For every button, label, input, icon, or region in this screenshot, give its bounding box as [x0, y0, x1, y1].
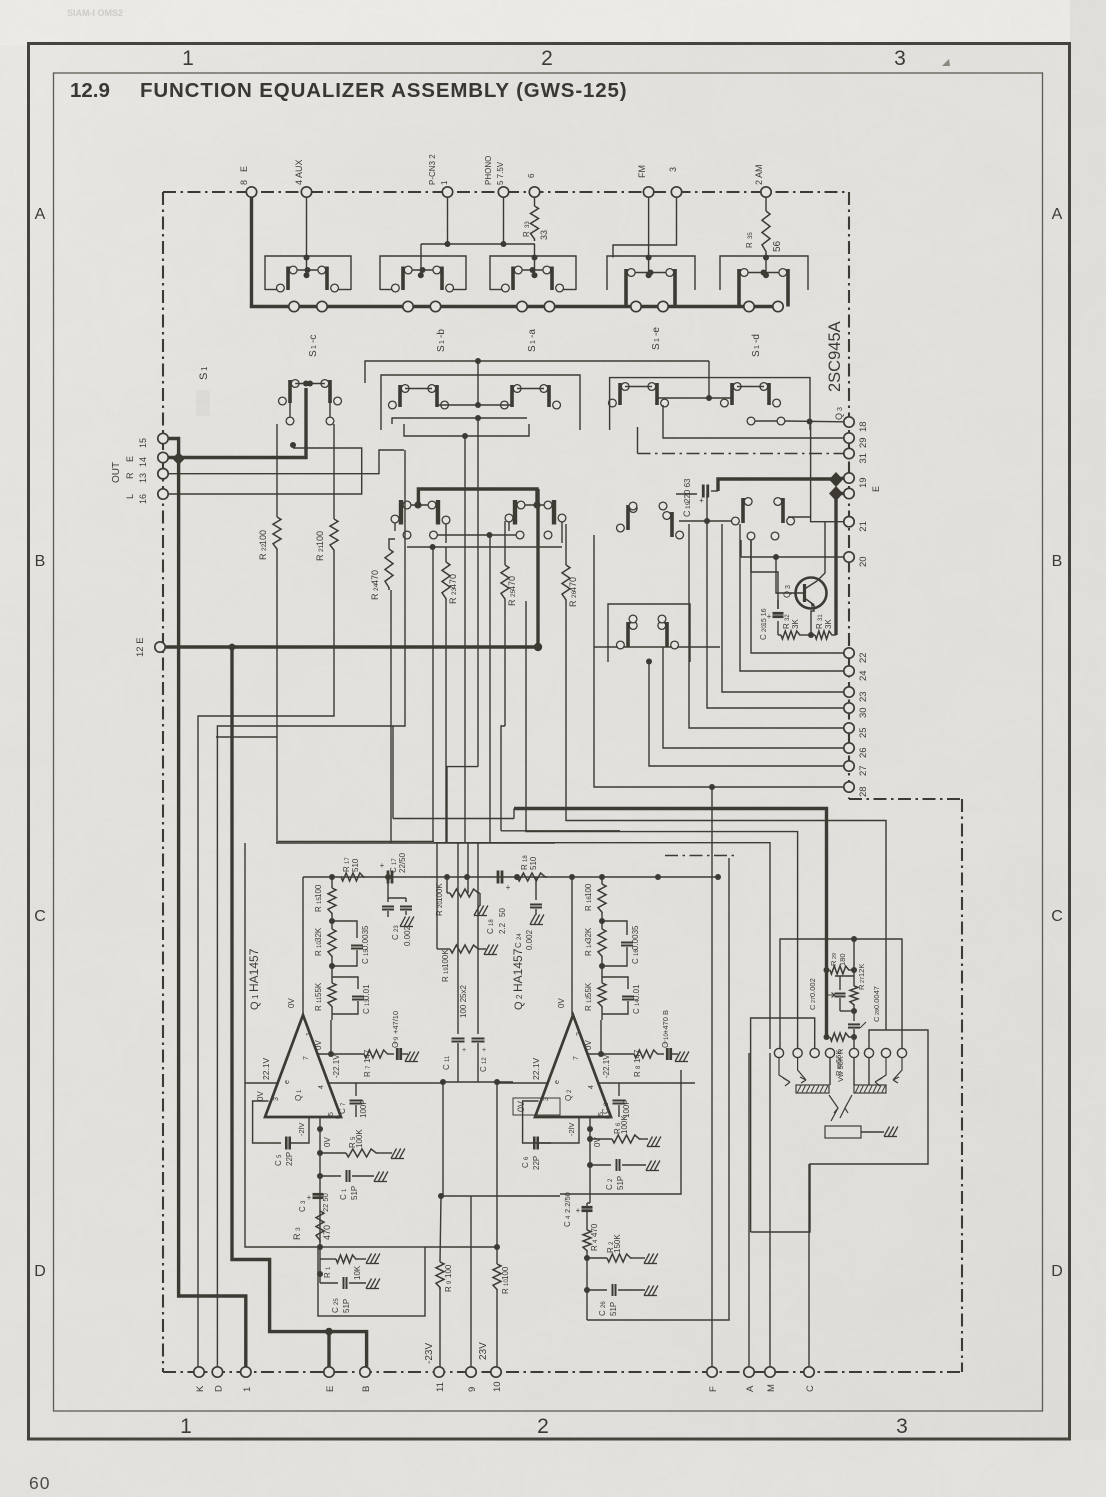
switch S1-e unit 3 — [730, 383, 734, 405]
wire S1-g circles top — [629, 502, 637, 510]
wire U2 pin3 rail — [497, 1082, 548, 1084]
wire band vertical d — [445, 601, 447, 843]
fader wiper arrows — [779, 1058, 790, 1086]
fader wiper link — [829, 1095, 852, 1121]
capacitor C17 — [387, 871, 390, 884]
wire S1-h circles — [629, 615, 637, 623]
resistor R18 510 — [517, 873, 547, 881]
resistor R20 100K — [446, 877, 448, 893]
label 0V box U2 — [513, 1098, 560, 1115]
wire to pin 20 — [741, 556, 844, 558]
wire S1-g link — [679, 520, 738, 522]
resistor R8 147 — [588, 1053, 635, 1055]
switch S1 in-c unit left — [511, 267, 515, 291]
chassis boundary right edge lower — [961, 799, 963, 1372]
wire C19 drop — [706, 494, 708, 521]
bus thick fader — [514, 809, 827, 971]
ground C9 — [405, 1052, 411, 1062]
wire S1-b contacts — [405, 388, 432, 390]
connector pin 27 — [844, 761, 854, 771]
wire thick down rail 2 — [232, 647, 367, 1367]
connector pin 31 — [844, 448, 854, 458]
chassis boundary bottom edge — [163, 1371, 962, 1373]
resistor R3 470 — [316, 1211, 324, 1242]
wire S1 in-e contacts — [748, 272, 779, 274]
ground C2 — [646, 1161, 652, 1171]
capacitor C10 — [659, 1053, 664, 1055]
wire S1-e feed — [708, 361, 710, 398]
wire Q1 box — [245, 843, 318, 1247]
wire band vertical c — [432, 547, 434, 841]
inner border frame — [54, 73, 1043, 1411]
switch section S1 in-d box — [607, 256, 695, 290]
capacitor C8 — [618, 1083, 620, 1096]
connector pin P-CN3 2 — [442, 187, 452, 197]
printing artifact arrow — [942, 59, 950, 66]
capacitor C20 — [751, 592, 762, 594]
node S1-f feed right — [533, 501, 540, 508]
wire terminal drops — [829, 1058, 831, 1085]
wire OUT thick bus — [168, 439, 179, 459]
connector pin 18 — [844, 417, 854, 427]
wire S1-f hang circles — [403, 531, 411, 539]
wire S1 in-d contacts — [635, 272, 666, 274]
wire fader top box — [780, 939, 902, 1049]
ground R2 — [644, 1254, 650, 1264]
switch S1-g unit 3 — [741, 498, 745, 523]
connector pin A bottom — [744, 1367, 754, 1377]
switch S1-h unit left — [626, 622, 630, 647]
connector pin F bottom — [707, 1367, 717, 1377]
wire thick to E pin — [327, 1332, 330, 1367]
wire to pin 28 — [594, 647, 844, 787]
connector pin 3 — [671, 187, 681, 197]
capacitor C12 — [472, 1038, 485, 1040]
wire band vertical f — [477, 418, 479, 767]
wire band vertical h — [504, 601, 506, 726]
node R3 bottom — [317, 1244, 323, 1250]
switch S1 in-d unit left — [624, 269, 628, 307]
fader body rect — [825, 1126, 861, 1138]
ground C24 — [530, 915, 536, 925]
connector pin 2 AM — [761, 187, 771, 197]
switch section S1 in-b box — [380, 256, 466, 290]
wire pin3 drop — [613, 192, 677, 258]
switch S1-b unit 3 — [510, 385, 514, 407]
resistor R11 55K — [328, 983, 336, 1008]
resistor R21 — [333, 424, 335, 519]
wire S1-f bottom link — [407, 546, 562, 548]
resistor R15 — [331, 877, 333, 888]
wire S1-f thick top bus — [418, 489, 537, 505]
wire S1-d bottom circles — [747, 417, 755, 425]
wire S1 in-a contacts — [297, 269, 318, 271]
capacitor C24 — [535, 877, 537, 900]
wire S1-e cross — [657, 397, 732, 399]
wire S1-b cross rail — [437, 404, 512, 406]
connector pin 25 — [844, 723, 854, 733]
connector pin 16 — [158, 489, 168, 499]
wire vertical mid b — [457, 843, 459, 1034]
wire U2 pin3 loop — [523, 1101, 551, 1143]
ground C10 — [675, 1052, 681, 1062]
node R4 bottom — [584, 1255, 590, 1261]
wire to pin 18 — [785, 420, 844, 423]
capacitor C27 — [826, 969, 828, 971]
wire S1-f lower rail — [437, 534, 516, 536]
resistor R35 — [765, 192, 767, 211]
wire F rail — [711, 787, 713, 1367]
connector pin 15 — [158, 433, 168, 443]
wire pin16 — [168, 448, 362, 494]
wire S1 in-b contacts — [412, 269, 433, 271]
wire Q3 collector — [817, 522, 825, 581]
wire U1 pin3 loop — [253, 1101, 281, 1143]
wire band vertical a — [276, 551, 278, 843]
label misc smudge — [196, 390, 210, 416]
switch S1-g unit 4 — [781, 498, 785, 523]
wire U1 output — [302, 1014, 304, 1016]
connector pin 19 — [844, 473, 854, 483]
connector pin 28 — [844, 782, 854, 792]
wire mid rail 1082 — [441, 1081, 513, 1083]
switch S1-c unit left — [288, 380, 292, 403]
capacitor C11 — [452, 1038, 465, 1040]
capacitor C25 — [317, 1271, 323, 1277]
wire 8E drop thick — [250, 192, 253, 307]
resistor R6 100K — [587, 1136, 593, 1142]
wire U1 pin6 down — [319, 1117, 321, 1129]
wire Q2 bottom route — [587, 858, 729, 1320]
connector pin 1 bottom — [241, 1367, 251, 1377]
wire vertical mid d — [477, 843, 479, 1034]
switch S1 in-d unit right — [673, 269, 677, 307]
node EB junction — [325, 1328, 333, 1336]
resistor R9 100 — [440, 1196, 441, 1262]
fader terminals — [774, 1048, 783, 1057]
switch S1 in-c unit right — [550, 267, 554, 291]
switch section S1 in-a box — [265, 256, 351, 290]
connector pin 29 — [844, 433, 854, 443]
wire C18 — [467, 876, 489, 878]
wire feed row1 B2-B3 — [421, 243, 535, 245]
switch section S1-h box — [608, 604, 690, 662]
switch S1-c unit right — [328, 380, 332, 403]
capacitor C23 — [387, 877, 389, 902]
transistor Q3 2SC945A — [796, 578, 827, 609]
switch S1-b unit 4 — [547, 385, 551, 407]
switch S1-f unit 4 — [552, 500, 556, 525]
switch S1 in-b unit right — [440, 267, 444, 291]
capacitor C19 — [676, 493, 697, 495]
capacitor C18 — [497, 871, 500, 884]
capacitor C9 — [389, 1053, 394, 1055]
capacitor C3 — [313, 1193, 324, 1196]
wire Q3 base — [776, 557, 805, 593]
wire Q3 emitter — [811, 605, 814, 635]
wire S1 in-c contacts — [522, 269, 543, 271]
resistor R28 — [830, 1033, 850, 1041]
node S1-f junction — [534, 643, 542, 651]
switch S1-f unit 1 — [399, 500, 403, 525]
node pin19 diamond — [829, 472, 843, 487]
wire to pin 21 — [788, 517, 844, 522]
switch S1 in-b unit left — [401, 267, 405, 291]
ground R6 — [641, 1138, 648, 1140]
ground R19 — [484, 945, 490, 955]
wire to pin 31 dashline — [638, 453, 844, 455]
wire to pin 24 — [740, 524, 844, 671]
wire S1-c hang right — [326, 417, 334, 425]
resistor R4 470 — [586, 1212, 588, 1230]
switch section S1-g box — [594, 535, 720, 647]
connector pin 4 AUX — [301, 187, 311, 197]
wire M rail — [769, 1053, 771, 1367]
wire to pin 29 — [663, 405, 844, 438]
wire vertical mid a — [436, 843, 438, 949]
chassis boundary step horizontal — [849, 798, 962, 800]
switch section S1-d box — [610, 378, 810, 430]
op-amp U1 HA1457 — [265, 1015, 341, 1117]
wire rail mid — [441, 876, 572, 878]
op-amp U2 HA1457 — [535, 1015, 611, 1117]
connector pin B bottom — [360, 1367, 370, 1377]
switch S1-e unit 1 — [618, 383, 622, 405]
resistor R29 — [830, 966, 850, 974]
wire fader gnd — [861, 1131, 884, 1133]
connector pin K bottom — [194, 1367, 204, 1377]
wire left fader box — [751, 1018, 815, 1232]
wire 4AUX drop — [306, 192, 308, 276]
fader track right — [854, 1085, 886, 1093]
wire S1-c contacts — [295, 383, 325, 385]
switch section S1 in-e box — [720, 256, 808, 290]
wire fader feed 4 y830 — [501, 830, 620, 832]
ground C23 — [400, 917, 406, 927]
capacitor C28 — [848, 1023, 860, 1025]
resistor R32 — [778, 634, 781, 636]
resistor R10b 100 — [496, 1247, 498, 1264]
connector pin 13 — [158, 469, 168, 479]
wire to pin 30 — [707, 521, 844, 708]
ground R1 — [366, 1254, 372, 1264]
capacitor C13 — [332, 977, 358, 989]
resistor R22 — [276, 424, 278, 517]
wire band step f — [447, 767, 478, 843]
capacitor C26 — [584, 1287, 590, 1293]
connector pin 14 — [158, 452, 168, 462]
connector pin D bottom — [212, 1367, 222, 1377]
wire S1-c hang left — [286, 417, 294, 425]
wire D rail — [217, 450, 405, 1367]
ground R20 — [474, 906, 480, 916]
wire S1-e contacts — [625, 386, 652, 388]
node junction B1 top — [304, 255, 310, 261]
switch S1 in-e unit left — [737, 269, 741, 307]
connector pin FM — [643, 187, 653, 197]
resistor R33 — [534, 192, 536, 206]
connector pin C bottom — [804, 1367, 814, 1377]
wire U2 neg rail — [597, 1082, 695, 1084]
resistor R5 100K — [317, 1150, 323, 1156]
switch S1-g unit 2 — [670, 512, 674, 537]
connector pin 8 E — [246, 187, 256, 197]
wire fader feed 1 — [566, 602, 886, 1030]
switch section S1 in-c box — [490, 256, 576, 290]
resistor R1 10K — [320, 1258, 336, 1260]
bus top thick — [250, 305, 780, 308]
switch S1-f unit 3 — [513, 500, 517, 525]
wire to pin 23 — [722, 524, 844, 692]
wire to pin 26 — [663, 647, 844, 748]
wire S1-b lower rail — [392, 418, 527, 424]
bus pin circles row1 — [289, 301, 299, 311]
node S1-f feed left — [414, 501, 421, 508]
capacitor C5 — [285, 1137, 288, 1150]
resistor R2 150K — [587, 1257, 607, 1259]
wire U1 neg rail — [327, 1082, 441, 1084]
wire band horizontal y841 — [278, 840, 434, 842]
wire mid rail 1196 — [441, 1195, 560, 1197]
wire A rail — [748, 1053, 750, 1367]
resistor R25 — [504, 521, 506, 565]
connector pin 6 — [529, 187, 539, 197]
resistor R14 32K — [601, 914, 603, 929]
ground C1 — [374, 1172, 380, 1182]
wire row2 top rail — [365, 361, 605, 383]
node S1-h junction — [646, 659, 652, 665]
connector pin PHONO 5 — [498, 187, 508, 197]
switch S1-b unit 2 — [435, 385, 439, 407]
wire P-CN3 drop — [447, 192, 449, 244]
wire R22 down — [216, 736, 277, 738]
wire row2 second rail — [381, 375, 580, 430]
capacitor C4 — [582, 1206, 593, 1209]
connector pin 11 bottom — [434, 1367, 444, 1377]
switch S1-e unit 4 — [767, 383, 771, 405]
wire B3 drop — [534, 244, 536, 275]
resistor R19 100K — [447, 893, 449, 949]
connector pin 24 — [844, 666, 854, 676]
node OUT junction — [172, 452, 185, 465]
wire fader feed 3 — [434, 843, 770, 1049]
resistor R17 — [341, 873, 365, 881]
wire U1 pin3 rail — [245, 1082, 278, 1084]
wire C rail — [808, 1164, 810, 1367]
connector pin 21 — [844, 517, 854, 527]
connector pin 26 — [844, 743, 854, 753]
wire pin11 rail — [439, 1288, 441, 1367]
wire S1-g bottom circles — [747, 532, 755, 540]
wire PHONO drop — [503, 192, 505, 244]
wire Q2 output — [571, 877, 573, 1015]
wire band horizontal y726b — [501, 726, 505, 831]
node R10 bottom — [329, 963, 335, 969]
resistor R10 32K — [331, 915, 333, 929]
node emitter junction — [808, 632, 814, 638]
wire S1-f thick vertical — [536, 489, 539, 647]
node 12E junction — [229, 644, 236, 651]
wire rail Q1 — [303, 876, 441, 878]
switch S1-e unit 2 — [655, 383, 659, 405]
wire y818 — [393, 818, 514, 820]
resistor R16 100 — [601, 877, 603, 884]
wire thick down-left rail — [179, 458, 246, 1367]
wire pin13 to S1-b — [168, 450, 404, 474]
wire rail Q1 left end — [302, 877, 304, 1015]
wire fader feed 2 — [526, 601, 798, 1049]
wire to pin 22 — [751, 540, 844, 653]
bus thick right vertical — [834, 494, 837, 636]
wire rail Q2 — [572, 876, 718, 878]
connector pin 20 — [844, 552, 854, 562]
capacitor C16 — [602, 921, 627, 935]
scan grain overlay — [0, 0, 1, 1]
wire FM drop — [648, 192, 650, 276]
wire U2 pin6 down — [589, 1117, 591, 1129]
wire C27 bottom — [840, 1010, 854, 1012]
wire S1-b bottom rail — [404, 424, 529, 436]
chassis boundary right edge upper — [848, 192, 850, 799]
connector pin E bottom — [324, 1367, 334, 1377]
capacitor C1 — [317, 1173, 323, 1179]
chassis boundary left edge — [162, 192, 164, 1372]
wire vertical mid c — [467, 843, 469, 893]
resistor R26 — [565, 524, 567, 565]
resistor R24 — [385, 549, 393, 590]
connector pin 23 — [844, 687, 854, 697]
wire R29 right vertical — [853, 939, 855, 986]
switch S1-b unit 1 — [398, 385, 402, 407]
ground fader — [884, 1127, 890, 1137]
wire band vertical g — [489, 535, 491, 843]
switch S1 in-a unit right — [325, 267, 329, 291]
wire S1-f contacts — [411, 504, 428, 506]
connector pin 22 — [844, 648, 854, 658]
wire to pin 27 — [649, 662, 844, 767]
ground C25 — [366, 1279, 372, 1289]
fader track left — [796, 1085, 829, 1093]
switch S1-h unit right — [665, 622, 669, 647]
wire to pin 25 — [689, 524, 844, 728]
wire B2 drop — [420, 244, 422, 275]
ground C26 — [644, 1286, 650, 1296]
wire right fader box — [751, 1030, 928, 1232]
resistor R31 — [815, 631, 833, 639]
switch S1 in-a unit left — [286, 267, 290, 291]
ground R5 — [378, 1152, 392, 1154]
wire mid rail 1245 — [425, 1246, 497, 1248]
bus 12E thick — [165, 645, 538, 648]
switch S1 in-e unit right — [786, 269, 790, 307]
connector pin 17 — [844, 488, 854, 498]
capacitor C14 — [602, 977, 628, 989]
capacitor C15 — [332, 921, 357, 938]
resistor R7 147 — [318, 1053, 365, 1055]
bus thick fader lower — [825, 968, 828, 1037]
chassis boundary top edge — [163, 191, 849, 193]
capacitor C2 — [587, 1162, 593, 1168]
connector pin M bottom — [765, 1367, 775, 1377]
resistor R27 12K — [850, 986, 858, 1006]
connector pin 30 — [844, 703, 854, 713]
wire band vertical b — [390, 590, 392, 843]
capacitor C7 — [331, 876, 333, 878]
resistor R12 55K — [599, 963, 605, 969]
connector pin 10 bottom — [491, 1367, 501, 1377]
wire Q2 box — [560, 1070, 681, 1194]
wire pin9 rail — [470, 1196, 472, 1367]
